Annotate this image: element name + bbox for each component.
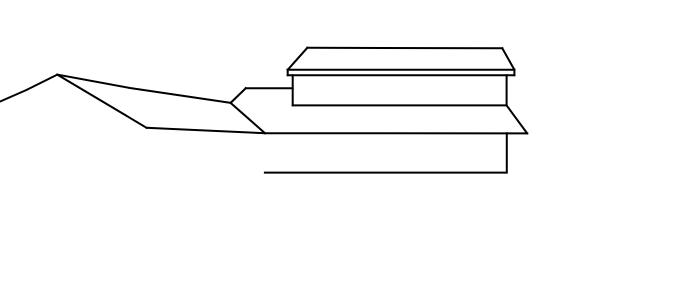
roof fascia right end bbox=[513, 70, 515, 75]
short rise from junction up to path bbox=[231, 88, 246, 103]
lower ground line bbox=[264, 172, 507, 174]
horizontal path to building bbox=[246, 87, 293, 89]
building body bottom edge bbox=[293, 104, 507, 106]
slope from junction down to ground bbox=[231, 103, 265, 133]
terrace right diagonal edge bbox=[507, 105, 528, 133]
building left wall bbox=[292, 75, 294, 105]
roof fascia bottom line bbox=[288, 74, 515, 76]
ground base line right segment bbox=[265, 132, 527, 134]
ground base line left segment bbox=[147, 128, 265, 133]
hill right ridge (shallow, to road junction) bbox=[57, 75, 230, 103]
roof top edge bbox=[307, 47, 502, 50]
roof left slant bbox=[288, 48, 308, 70]
roof right slant bbox=[502, 48, 514, 70]
hill left slope bbox=[0, 75, 57, 102]
hill right slope (steep) bbox=[57, 75, 146, 128]
roof fascia top line bbox=[288, 69, 515, 71]
lower wall vertical bbox=[506, 133, 508, 172]
building right wall bbox=[506, 75, 508, 105]
roof fascia left end bbox=[287, 70, 289, 75]
